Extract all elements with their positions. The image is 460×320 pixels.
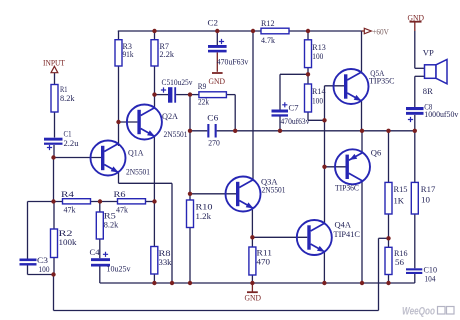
wire R3 bottom to Q1A collector xyxy=(118,66,120,146)
resistor R2 xyxy=(51,229,58,258)
resistor R13 xyxy=(305,40,312,68)
wire feedback down xyxy=(53,275,55,311)
svg-text:Q6: Q6 xyxy=(371,148,382,158)
wire GND stem bottom (maroon) xyxy=(251,283,253,292)
junction dots xyxy=(152,29,156,33)
wire feedback up xyxy=(378,238,380,310)
resistor R9 xyxy=(199,92,227,98)
svg-text:8.2k: 8.2k xyxy=(60,93,75,103)
wire R9 right lead xyxy=(226,94,235,96)
svg-text:R10: R10 xyxy=(196,201,214,211)
capacitor C7 xyxy=(272,110,289,113)
svg-text:10u25v: 10u25v xyxy=(107,263,132,273)
svg-text:2N5501: 2N5501 xyxy=(262,185,286,195)
transistor Q1A xyxy=(91,141,126,176)
wire bias row left xyxy=(28,201,63,203)
wire bias row mid xyxy=(91,201,118,203)
wire GND1 to speaker xyxy=(414,31,416,68)
svg-text:8R: 8R xyxy=(423,86,433,96)
wire speaker lower stub xyxy=(415,75,425,77)
transistor Q6 xyxy=(335,149,370,184)
wire R7 bottom / Q2A collector xyxy=(154,66,156,108)
wire R7 top lead xyxy=(154,31,156,40)
svg-text:47k: 47k xyxy=(116,204,129,214)
wire C2 to GND (maroon) xyxy=(216,53,218,72)
svg-text:C510u25v: C510u25v xyxy=(162,77,193,87)
wire input node down xyxy=(53,158,55,202)
wire C3 bottom lead xyxy=(27,266,29,275)
ground GND under C2 xyxy=(212,72,223,74)
svg-text:2N5501: 2N5501 xyxy=(164,129,188,139)
speaker VP xyxy=(425,65,437,79)
wire C6 left lead xyxy=(190,130,207,132)
wire ground rail xyxy=(100,282,415,284)
svg-text:1000uf50v: 1000uf50v xyxy=(424,109,459,119)
wire Q3A collector riser xyxy=(252,31,254,181)
wire R13/R14 junction to C7 xyxy=(280,73,308,75)
wire INPUT stem xyxy=(54,73,56,85)
wire Q6 emitter rise xyxy=(361,131,363,153)
svg-text:470uF63v: 470uF63v xyxy=(217,56,249,66)
wire R16 bottom lead xyxy=(388,275,390,284)
svg-text:R6: R6 xyxy=(114,189,127,199)
wire emitter ground drop xyxy=(171,183,173,283)
svg-text:2N5501: 2N5501 xyxy=(126,166,150,176)
wire C7 top lead xyxy=(279,74,281,109)
svg-text:1K: 1K xyxy=(394,196,405,206)
wire emitter row xyxy=(119,182,173,184)
wire Q4A emitter drop xyxy=(323,252,325,283)
wire C5 left lead xyxy=(155,94,169,96)
capacitor C6 xyxy=(207,124,209,138)
svg-text:VP: VP xyxy=(423,48,434,58)
wire Q2A base xyxy=(119,121,138,123)
resistor R5 xyxy=(96,212,103,239)
svg-text:2.2k: 2.2k xyxy=(160,49,175,59)
svg-text:91k: 91k xyxy=(123,49,134,59)
capacitor C10 xyxy=(406,268,422,270)
wire Q5A emitter drop xyxy=(361,101,363,131)
svg-text:R17: R17 xyxy=(421,184,436,194)
svg-text:104: 104 xyxy=(425,273,436,283)
svg-text:C2: C2 xyxy=(208,18,219,28)
wire C1 to input node xyxy=(53,145,55,158)
svg-text:GND: GND xyxy=(245,292,262,302)
wire C3 top column xyxy=(27,202,29,259)
svg-text:GND: GND xyxy=(209,76,226,86)
ground GND bottom xyxy=(247,291,258,293)
wire GND1 stem (maroon) xyxy=(414,22,416,31)
wire R5 top lead xyxy=(99,202,101,213)
wire C4 bottom lead xyxy=(99,267,101,284)
svg-text:100: 100 xyxy=(312,51,323,61)
wire C8 bottom lead xyxy=(414,115,416,131)
svg-text:2.2u: 2.2u xyxy=(64,138,80,148)
svg-text:100: 100 xyxy=(312,95,323,105)
svg-text:10: 10 xyxy=(421,195,431,205)
wire R14 bottom lead xyxy=(307,112,309,120)
svg-text:47k: 47k xyxy=(64,204,77,214)
wire output row xyxy=(217,130,415,132)
wire C2 top lead xyxy=(216,31,218,45)
resistor R17 xyxy=(411,182,418,214)
wire Q1A emitter drop xyxy=(118,172,120,183)
wire R11 top lead xyxy=(251,237,253,247)
svg-text:8.2k: 8.2k xyxy=(104,220,119,230)
svg-text:TIP36C: TIP36C xyxy=(335,183,359,193)
capacitor C8 xyxy=(406,107,424,110)
resistor R15 xyxy=(385,182,392,214)
wire C10 bottom lead xyxy=(414,274,416,283)
wire R10 bottom lead xyxy=(189,228,191,284)
svg-text:470uf63v: 470uf63v xyxy=(281,116,311,126)
resistor R16 xyxy=(385,247,392,274)
wire bias row right xyxy=(146,201,155,203)
wire Q3A emitter drop xyxy=(251,210,253,238)
wire R17 to C10 xyxy=(414,214,416,268)
capacitor C2 xyxy=(208,45,227,48)
svg-text:22k: 22k xyxy=(198,97,209,107)
svg-text:1.2k: 1.2k xyxy=(196,211,212,221)
wire R16 top lead xyxy=(388,238,390,247)
wire speaker to C8 xyxy=(414,76,416,107)
resistor R3 xyxy=(115,40,122,66)
resistor R10 xyxy=(187,200,194,228)
wire node vertical C5/C6/R10 xyxy=(189,95,191,200)
wire driver vertical Q5A base to Q4A collector xyxy=(324,86,326,223)
svg-text:Q2A: Q2A xyxy=(162,111,179,121)
wire R11 bottom lead xyxy=(251,275,253,283)
wire R9 left lead xyxy=(190,94,199,96)
wire R13 top lead xyxy=(307,31,309,40)
capacitor C1 xyxy=(44,138,63,141)
wire R1 to C1 xyxy=(54,112,56,138)
wire Q1A base xyxy=(54,157,102,159)
wire C5 right lead xyxy=(176,94,190,96)
svg-text:TIP41C: TIP41C xyxy=(334,229,361,239)
wire R2 bottom lead xyxy=(53,258,55,275)
transistor Q3A xyxy=(226,177,261,212)
svg-text:C7: C7 xyxy=(289,102,300,112)
wire R15 top lead xyxy=(388,131,390,183)
wire Q4A base row xyxy=(252,236,307,238)
svg-text:100k: 100k xyxy=(59,237,78,247)
resistor R14 xyxy=(305,84,312,112)
svg-text:100: 100 xyxy=(39,264,50,274)
wire +60V top rail xyxy=(118,30,362,32)
svg-text:WeeQoo: WeeQoo xyxy=(402,306,435,318)
svg-text:Q1A: Q1A xyxy=(128,148,144,158)
wire R8 bottom lead xyxy=(153,274,155,283)
transistor Q4A xyxy=(297,220,332,255)
svg-text:+60V: +60V xyxy=(372,26,389,36)
svg-text:4.7k: 4.7k xyxy=(261,35,276,45)
capacitor C5 xyxy=(168,87,172,103)
wire C3 to R2 bottom xyxy=(28,274,54,276)
capacitor C3 xyxy=(20,259,37,262)
wire R3 top lead xyxy=(118,31,120,40)
svg-text:R15: R15 xyxy=(394,184,409,194)
resistor R11 xyxy=(249,247,256,275)
resistor R12 xyxy=(261,28,289,34)
resistor R4 xyxy=(63,199,91,204)
wire +60V rail drop to Q5A collector xyxy=(361,31,363,73)
svg-text:R9: R9 xyxy=(198,81,207,91)
wire R14 to driver rail xyxy=(308,119,325,121)
port +60V xyxy=(362,30,365,32)
svg-text:270: 270 xyxy=(208,138,220,148)
transistor Q5A xyxy=(334,69,369,104)
resistor R8 xyxy=(151,247,158,275)
svg-text:33k: 33k xyxy=(159,257,173,267)
svg-text:R4: R4 xyxy=(61,189,75,199)
wire R2 top lead xyxy=(53,202,55,230)
wire feedback bottom run xyxy=(54,310,379,312)
wire Q2A emitter column xyxy=(153,137,155,247)
wire Q6 base xyxy=(325,166,346,168)
wire C7 bottom lead xyxy=(279,117,281,131)
capacitor C4 xyxy=(91,258,110,261)
wire R15 bottom lead xyxy=(388,214,390,238)
wire Q3A base xyxy=(190,193,236,195)
wire Q6 collector drop xyxy=(361,181,363,283)
wire R5 to C4 xyxy=(99,239,101,258)
wire R13-R14 link xyxy=(307,68,309,84)
wire R17 top lead xyxy=(414,131,416,183)
wire feedback to R15/R16 junction xyxy=(379,237,389,239)
transistor Q2A xyxy=(127,105,162,140)
resistor R6 xyxy=(118,199,146,204)
svg-text:C4: C4 xyxy=(90,247,101,257)
svg-text:C6: C6 xyxy=(207,113,219,123)
wire R9 drop xyxy=(234,95,236,131)
wire Q5A base xyxy=(325,85,345,87)
svg-text:R12: R12 xyxy=(261,18,275,28)
svg-text:GND: GND xyxy=(408,12,425,22)
resistor R7 xyxy=(151,40,158,66)
svg-text:470: 470 xyxy=(257,257,271,267)
svg-text:56: 56 xyxy=(395,257,405,267)
wire speaker upper stub xyxy=(415,67,425,69)
svg-text:TIP35C: TIP35C xyxy=(369,75,395,85)
resistor R1 xyxy=(51,85,58,113)
